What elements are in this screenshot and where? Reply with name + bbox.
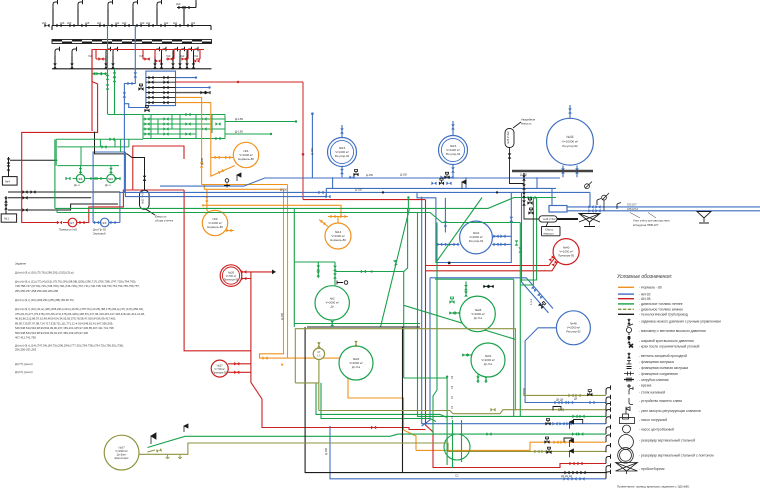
svg-text:2в3: 2в3 <box>122 21 127 25</box>
svg-text:№26: №26 <box>228 271 235 275</box>
svg-text:2в5: 2в5 <box>85 21 90 25</box>
svg-text:- технологический трубопровод: - технологический трубопровод <box>639 313 688 317</box>
wire: red AI-95 pipe runs <box>22 50 251 351</box>
wire: technological black pipes bottom <box>307 327 606 473</box>
svg-text:Д-108: Д-108 <box>324 447 328 455</box>
pump station suction valves <box>4 158 35 211</box>
svg-text:С1: С1 <box>455 474 459 478</box>
svg-text:- насос погружной: - насос погружной <box>639 418 667 422</box>
svg-text:1П8-1П13: 1П8-1П13 <box>627 208 639 211</box>
red loading header over risers <box>92 50 204 132</box>
svg-text:2в5: 2в5 <box>67 21 72 25</box>
svg-text:Дт(77),(ув,нп): Дт(77),(ув,нп) <box>15 362 33 366</box>
svg-text:546,548,544,540,98,99,594,99,9: 546,548,544,540,98,99,594,99,96,157,159,… <box>15 326 114 330</box>
ring labels <box>451 375 454 419</box>
svg-text:№4: №4 <box>5 180 10 184</box>
gas meter circle SG <box>313 348 324 359</box>
blue vertical from top manifold <box>124 26 147 108</box>
svg-text:ёмкость: ёмкость <box>521 122 532 126</box>
svg-text:Регуляр-92: Регуляр-92 <box>335 154 350 158</box>
svg-text:Дт-л: Дт-л <box>74 183 80 187</box>
svg-text:- вентиль запорный проходной: - вентиль запорный проходной <box>639 354 687 358</box>
tank N28 <box>460 296 496 332</box>
svg-text:Регуляр-92: Регуляр-92 <box>446 152 461 156</box>
svg-text:Задание: Задание <box>15 262 27 266</box>
svg-text:- дизельное топливо зимнее: - дизельное топливо зимнее <box>639 308 683 312</box>
svg-text:- узел запорно-регулирующих кл: - узел запорно-регулирующих клапанов <box>639 409 701 413</box>
black flag near tank37 <box>151 433 156 444</box>
svg-text:2в6: 2в6 <box>42 21 47 25</box>
svg-text:V=10000 м³: V=10000 м³ <box>562 140 578 144</box>
svg-text:- АИ-95: - АИ-95 <box>639 297 651 301</box>
svg-text:Нормаль-80: Нормаль-80 <box>207 225 223 229</box>
orange valves <box>200 156 566 444</box>
drain vessel N46 <box>539 216 557 222</box>
svg-text:1П2-1П7: 1П2-1П7 <box>627 203 637 206</box>
svg-text:7в5: 7в5 <box>139 54 144 58</box>
railway track bar <box>52 40 212 44</box>
red valves <box>98 57 199 63</box>
svg-text:- врезка: - врезка <box>639 384 652 388</box>
svg-text:в/поддона ПБВ-10?: в/поддона ПБВ-10? <box>633 223 659 227</box>
tank43 enclosure <box>417 192 511 262</box>
tank N15 <box>328 138 357 167</box>
svg-text:2в1: 2в1 <box>191 21 196 25</box>
tank N37 olive <box>104 435 139 470</box>
tank N33 <box>471 343 505 377</box>
svg-text:- затрубка сливная: - затрубка сливная <box>639 378 669 382</box>
svg-text:Дт-Л-в: Дт-Л-в <box>352 365 361 369</box>
pump P green 1 <box>76 174 84 182</box>
svg-text:Д-108: Д-108 <box>200 157 204 165</box>
tank N43 <box>460 221 493 254</box>
svg-text:- задвижка низкого давления с: - задвижка низкого давления с ручным упр… <box>639 320 722 324</box>
svg-text:№27: №27 <box>217 364 224 368</box>
svg-text:- дизельное топливо летнее: - дизельное топливо летнее <box>639 302 683 306</box>
svg-text:Премиум-95: Премиум-95 <box>224 279 239 282</box>
tank N34 <box>339 346 373 380</box>
wire: orange Normal-80 pipe runs <box>176 97 607 450</box>
valve manifold enclosure (blue) <box>146 71 176 106</box>
svg-text:2в4: 2в4 <box>115 21 120 25</box>
svg-text:Регуляр-92: Регуляр-92 <box>562 144 578 148</box>
svg-text:№45 V=3м³: №45 V=3м³ <box>507 131 510 144</box>
tank N40 red <box>553 239 579 265</box>
tank N4 <box>233 142 258 167</box>
svg-text:сбора утечек: сбора утечек <box>155 219 174 223</box>
tank N27 red <box>211 360 228 377</box>
tank N14 <box>325 223 351 249</box>
svg-text:№44: №44 <box>567 135 574 139</box>
svg-text:№6: №6 <box>78 177 83 181</box>
loading platform bar <box>512 170 593 173</box>
black pump/valve marks bottom right rows <box>353 170 592 455</box>
riser hooks <box>44 0 200 27</box>
svg-text:Д1 Д1 Д1: Д1 Д1 Д1 <box>561 474 573 478</box>
olive valves and grounds <box>156 341 581 459</box>
svg-text:2в2: 2в2 <box>146 21 151 25</box>
svg-text:2в6: 2в6 <box>60 21 65 25</box>
svg-text:- манометр с вентилем высокого: - манометр с вентилем высокого давления <box>639 329 706 333</box>
svg-text:Д-150: Д-150 <box>400 173 408 177</box>
pump house boxes N4/N1 <box>1 157 120 222</box>
svg-text:Зерновой: Зерновой <box>93 232 106 236</box>
svg-text:ёмкость: ёмкость <box>544 232 555 236</box>
svg-text:Регуляр-92: Регуляр-92 <box>566 330 581 334</box>
green pump suction <box>56 139 119 174</box>
svg-text:Евро-Класс: Евро-Класс <box>115 456 130 460</box>
loading riser hooks bottom right <box>606 385 611 478</box>
svg-text:Примечание: привод арматуры за: Примечание: привод арматуры задвижек с Э… <box>617 485 690 489</box>
svg-text:- фланцевое соединение: - фланцевое соединение <box>639 372 678 376</box>
green valves <box>317 196 585 436</box>
top manifold pipe <box>52 3 211 30</box>
svg-text:7в1: 7в1 <box>194 54 199 58</box>
wire: blue take-off 2 <box>176 87 210 89</box>
tank N2 <box>315 286 349 320</box>
vessel N11 leak tank <box>95 132 156 215</box>
svg-text:7в3: 7в3 <box>166 54 171 58</box>
svg-text:- устройство нижнего слива: - устройство нижнего слива <box>639 399 682 403</box>
svg-text:Д-150: Д-150 <box>520 173 528 177</box>
svg-text:2в4: 2в4 <box>97 21 102 25</box>
svg-text:№37: №37 <box>119 446 126 450</box>
svg-text:Условные обозначения:: Условные обозначения: <box>617 274 673 280</box>
svg-text:2в2: 2в2 <box>164 21 169 25</box>
tank N26 red double <box>220 265 242 287</box>
svg-text:- фланцевая съемная заглушка: - фланцевая съемная заглушка <box>639 366 688 370</box>
green loading loop ring <box>444 434 470 460</box>
wire: technological pipe take-off <box>176 92 210 94</box>
svg-text:№1: №1 <box>4 217 9 221</box>
svg-text:Дт(з/л)-(9,т),(10),(75,76),(29: Дт(з/л)-(9,т),(10),(75,76),(296,291),(31… <box>15 270 74 274</box>
tank N48 <box>556 311 590 345</box>
svg-text:7в2: 7в2 <box>180 54 185 58</box>
svg-text:Д-108: Д-108 <box>280 312 284 320</box>
svg-text:89,90,710,87,97,98,714,717,518: 89,90,710,87,97,98,714,717,518,711,111,7… <box>15 321 113 325</box>
svg-text:№3: №3 <box>102 221 107 225</box>
tank N9 <box>202 210 227 235</box>
manometers <box>585 182 609 211</box>
svg-text:Прямогон №5: Прямогон №5 <box>59 228 77 232</box>
svg-text:Дт-Зим-: Дт-Зим- <box>117 453 127 457</box>
pump P green 2 <box>107 174 115 182</box>
svg-text:Д-150: Д-150 <box>235 130 243 134</box>
svg-text:- АИ-92: - АИ-92 <box>639 292 651 296</box>
svg-text:- резервуар вертикальный сталь: - резервуар вертикальный стальной с понт… <box>639 454 714 458</box>
blue valves <box>123 72 138 97</box>
svg-text:Нормаль-80: Нормаль-80 <box>238 157 254 161</box>
risers <box>53 9 184 26</box>
svg-text:Дб Дб: Дб Дб <box>556 398 564 402</box>
lower collection pipe <box>52 56 212 69</box>
svg-text:- пробоотборник: - пробоотборник <box>639 467 665 471</box>
svg-text:Д-150: Д-150 <box>235 117 243 121</box>
svg-text:556,548,544,544,98,94,594,99,9: 556,548,544,544,98,94,594,99,94,157,459,… <box>15 331 89 335</box>
svg-text:- шаровой кран высокого давлен: - шаровой кран высокого давления <box>639 339 694 343</box>
svg-text:Премиум-95: Премиум-95 <box>213 372 228 375</box>
svg-text:256,256-251,263: 256,256-251,263 <box>15 348 37 352</box>
svg-text:407,411,741,798: 407,411,741,798 <box>15 335 36 339</box>
svg-text:46,81,86,212,86,97,10,48,48,94: 46,81,86,212,86,97,10,48,48,94,54,34,55,… <box>15 317 116 321</box>
svg-text:2в3: 2в3 <box>140 21 145 25</box>
riser labels <box>42 2 196 25</box>
svg-text:- резервуар вертикальный сталь: - резервуар вертикальный стальной <box>639 439 695 443</box>
svg-text:2в1: 2в1 <box>173 21 178 25</box>
svg-text:№46 V=3м³: №46 V=3м³ <box>543 218 556 221</box>
svg-text:Дт(л/з)-(9,т),(10),(11,м),(28): Дт(л/з)-(9,т),(10),(11,м),(28),(296,291)… <box>15 307 144 311</box>
svg-text:- фланцевая заглушка: - фланцевая заглушка <box>639 360 674 364</box>
svg-text:Дб: Дб <box>574 397 578 401</box>
svg-text:- насос центробежный: - насос центробежный <box>639 428 674 432</box>
svg-text:475,(61,8),477,(75,478),476,(5: 475,(61,8),477,(75,478),476,(56,471),478… <box>15 312 145 316</box>
wire: blue take-off AI-92 <box>176 77 197 79</box>
svg-text:Дт(17),(ув,ип): Дт(17),(ув,ип) <box>15 370 33 374</box>
wire: olive diesel-winter pipe runs <box>139 329 606 455</box>
svg-text:Нормаль-80: Нормаль-80 <box>330 238 346 242</box>
legend symbols <box>627 319 631 358</box>
svg-text:2в0: 2в0 <box>176 2 181 6</box>
pump N7 red <box>68 218 77 227</box>
svg-text:Дт-Л-в: Дт-Л-в <box>474 316 483 320</box>
svg-text:- стояк наливной: - стояк наливной <box>639 390 665 394</box>
emergency vessel N45 <box>505 129 514 148</box>
svg-text:748,758-747,(97,84),745,(748,7: 748,758-747,(97,84),745,(748,769),748,(7… <box>15 284 140 288</box>
svg-text:Дт(з/л)-(9,т),(10),(296,291),(: Дт(з/л)-(9,т),(10),(296,291),(85),(88),(… <box>15 298 74 302</box>
tank N44 big <box>547 118 594 165</box>
wire: blue AI-92 pipe runs <box>93 152 125 223</box>
svg-text:Дт(л/з)-(9,т),(11),(77),(4),(5: Дт(л/з)-(9,т),(11),(77),(4),(5,6),(75,76… <box>15 279 136 283</box>
svg-text:1-3-2: 1-3-2 <box>529 298 533 305</box>
wire: red take-off AI-95 <box>176 82 304 200</box>
svg-text:Д-150: Д-150 <box>310 147 314 155</box>
svg-text:Д-150: Д-150 <box>280 188 288 192</box>
svg-text:Премиум-95: Премиум-95 <box>558 254 574 258</box>
svg-text:Дт-Л-в: Дт-Л-в <box>484 362 493 366</box>
wire: green diesel-summer pipe runs <box>55 139 606 468</box>
flag-pump symbols <box>184 173 574 457</box>
wire: green pump discharge <box>73 178 120 180</box>
svg-text:V=2000 м³: V=2000 м³ <box>115 449 128 453</box>
rotated pipe labels <box>200 147 533 455</box>
svg-text:255,256-257,258,259-260,266,26: 255,256-257,258,259-260,266,268 <box>15 289 59 293</box>
svg-text:- Нормаль - 80: - Нормаль - 80 <box>639 286 662 290</box>
top right stub <box>177 3 196 8</box>
svg-text:Д-150: Д-150 <box>366 173 374 177</box>
svg-text:№9: №9 <box>108 177 113 181</box>
svg-text:№7: №7 <box>69 221 74 225</box>
svg-text:Д-150: Д-150 <box>355 188 363 192</box>
green vertical from top manifold <box>107 26 109 115</box>
svg-text:Регуляр-92: Регуляр-92 <box>469 239 484 243</box>
svg-text:Дт-л: Дт-л <box>105 183 111 187</box>
svg-text:- кран после ограничительный у: - кран после ограничительный угловой <box>639 344 699 348</box>
tank N16 <box>439 136 468 165</box>
